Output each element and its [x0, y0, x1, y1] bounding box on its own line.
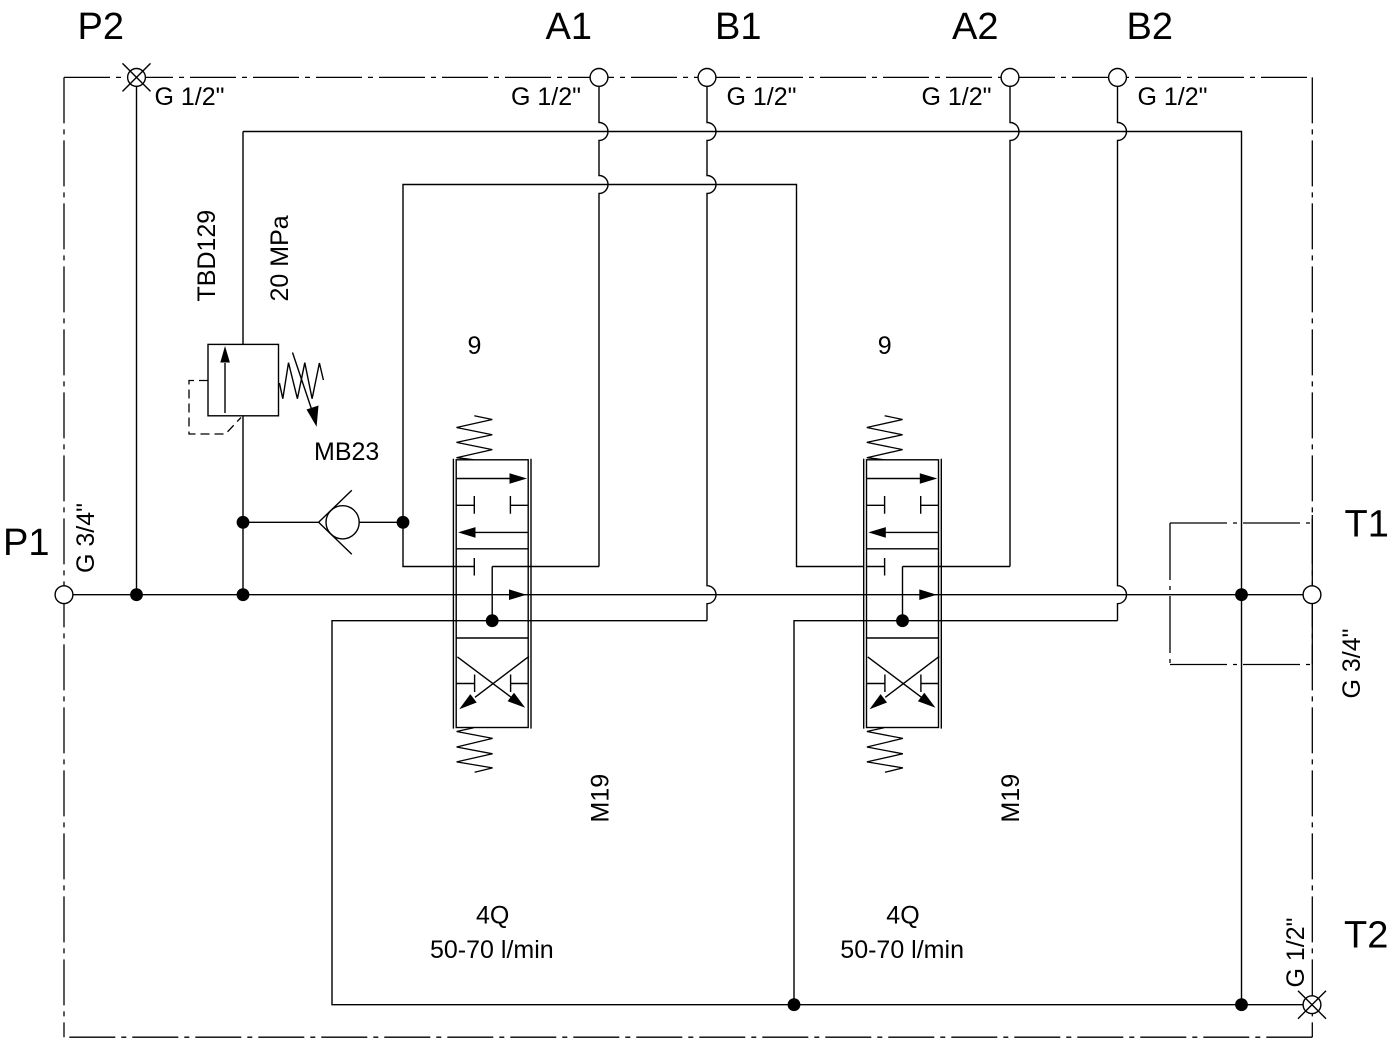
enclosure border left edge (dash-dot): [63, 77, 65, 1037]
wire: A1 branch to valve 1 A-port: [492, 566, 599, 568]
junction node relief-check: [237, 516, 250, 529]
DV1 top position blocked port left: [456, 496, 474, 514]
DV1 bottom spring: [457, 728, 493, 773]
check valve seat: [319, 490, 352, 522]
svg-text:A2: A2: [952, 6, 998, 48]
wire: check valve node down from relief valve to trunk: [242, 416, 244, 595]
svg-text:B2: B2: [1127, 6, 1173, 48]
check valve ball: [326, 506, 359, 539]
wire: right return line from B2 corner across valve 2 down to bottom line: [794, 621, 1118, 1005]
svg-text:T2: T2: [1344, 915, 1388, 957]
wire: A2 riser with jump over tank header: [1010, 86, 1019, 566]
DV2 position divider lower: [867, 637, 939, 639]
svg-text:TBD129: TBD129: [193, 210, 221, 302]
svg-text:9: 9: [468, 332, 482, 360]
wire: B1 riser with jumps over tank header, feed line and trunk: [707, 86, 716, 620]
wire: tank header from relief valve outlet to right drain drop to bottom: [243, 132, 1242, 1005]
wire: P1-T1 pressure trunk: [73, 594, 1303, 596]
DV1 top position blocked port right: [510, 496, 528, 514]
svg-text:T1: T1: [1345, 504, 1389, 546]
DV1 position divider upper: [456, 548, 528, 550]
svg-text:G 1/2": G 1/2": [1282, 917, 1310, 987]
svg-text:G 1/2": G 1/2": [1138, 83, 1208, 111]
svg-text:4Q: 4Q: [886, 902, 919, 930]
junction node check-feed: [397, 516, 410, 529]
junction node relief-trunk: [237, 588, 250, 601]
junction node bottom line right: [1235, 998, 1248, 1011]
svg-text:B1: B1: [715, 6, 761, 48]
DV1 centre position blocked P-port: [456, 558, 474, 576]
DV2 top position blocked port right: [921, 496, 939, 514]
DV1 top position left-flow arrow: [475, 531, 528, 533]
DV2 bottom position cross arrow 1: [868, 657, 923, 698]
DV2 centre position A-to-return tap: [902, 567, 904, 621]
enclosure border right edge (dash-dot): [1311, 77, 1313, 1037]
wire: A1 riser with jumps over tank header and feed line: [599, 86, 608, 566]
svg-text:MB23: MB23: [314, 438, 379, 466]
DV2 centre position blocked P-port: [867, 558, 885, 576]
wire: P2 riser down to P1 trunk: [136, 86, 138, 594]
port B2: [1109, 69, 1127, 87]
svg-text:P2: P2: [78, 6, 124, 48]
DV2 bottom position blocked port left: [867, 675, 885, 693]
svg-text:G 1/2": G 1/2": [727, 83, 797, 111]
DV1 top position right-flow arrow: [456, 478, 511, 480]
port T2 (plugged): [1298, 991, 1326, 1019]
DV2 top spring: [867, 416, 903, 460]
enclosure border top edge (dash-dot): [64, 76, 1312, 78]
relief valve adjustment arrow: [293, 353, 313, 413]
DV1 outer left rail: [452, 459, 454, 729]
DV1 centre position trunk arrow: [509, 589, 527, 600]
port P1: [55, 586, 73, 604]
check valve inlet line: [243, 521, 319, 523]
svg-text:G 1/2": G 1/2": [155, 83, 225, 111]
junction node P2-trunk: [130, 588, 143, 601]
DV2 top position left-flow arrow: [885, 531, 938, 533]
DV2 position divider upper: [867, 548, 939, 550]
DV1 top spring: [457, 416, 493, 460]
relief valve outlet line to tank header: [242, 132, 244, 345]
svg-text:50-70 l/min: 50-70 l/min: [840, 936, 964, 964]
relief valve body square: [208, 344, 279, 415]
relief valve flow arrow: [224, 363, 226, 413]
DV2 bottom position cross arrow 2: [885, 656, 939, 697]
wire: parallel feed line (check valve node up, across, down to valve 2 P-port): [403, 185, 864, 567]
svg-text:A1: A1: [546, 6, 592, 48]
check valve outlet line: [359, 521, 403, 523]
svg-text:9: 9: [878, 332, 892, 360]
DV2 outer left rail: [863, 459, 865, 729]
port P2 (plugged): [123, 63, 151, 91]
svg-text:G 1/2": G 1/2": [511, 83, 581, 111]
DV1 position divider lower: [456, 637, 528, 639]
DV2 centre position trunk arrow: [919, 589, 937, 600]
port T1: [1303, 586, 1321, 604]
wire: B2 riser with jumps over tank header and trunk: [1118, 86, 1127, 620]
svg-text:50-70 l/min: 50-70 l/min: [430, 936, 554, 964]
DV2 top position right-flow arrow: [867, 478, 922, 480]
relief valve pilot line (dashed): [189, 381, 241, 435]
port A1: [590, 69, 608, 87]
svg-text:G 3/4": G 3/4": [72, 503, 100, 573]
svg-text:M19: M19: [587, 774, 615, 823]
DV1 bottom position cross arrow 1: [457, 657, 512, 698]
directional valve DV2: [840, 332, 1025, 964]
DV1 outer right rail: [530, 459, 532, 729]
wire: left return line from B1 corner across valve 1 down and along bottom to T2: [332, 621, 1303, 1005]
DV2 bottom position blocked port right: [921, 675, 939, 693]
directional valve DV1: [430, 332, 615, 964]
T1 subplate box (dash-dot): [1170, 515, 1312, 665]
svg-text:M19: M19: [997, 774, 1025, 823]
port B1: [698, 69, 716, 87]
relief valve TBD129: [189, 132, 323, 435]
DV1 bottom position blocked port left: [456, 675, 474, 693]
DV1 junction dot on return line: [486, 614, 499, 627]
junction node trunk-tank drop: [1235, 588, 1248, 601]
DV2 spool body: [867, 460, 939, 728]
svg-text:20 MPa: 20 MPa: [266, 215, 294, 301]
DV1 bottom position blocked port right: [511, 675, 529, 693]
DV1 centre position A-to-return tap: [491, 567, 493, 621]
relief valve spring: [279, 363, 323, 399]
svg-text:4Q: 4Q: [476, 902, 509, 930]
enclosure border bottom edge (dash-dot): [64, 1036, 1312, 1038]
port A2: [1001, 69, 1019, 87]
DV1 bottom position cross arrow 2: [475, 656, 529, 697]
DV1 spool body: [456, 460, 528, 728]
svg-text:G 1/2": G 1/2": [922, 83, 992, 111]
DV2 top position blocked port left: [867, 496, 885, 514]
svg-text:G 3/4": G 3/4": [1338, 628, 1366, 698]
DV2 junction dot on return line: [896, 614, 909, 627]
check valve MB23: [243, 490, 403, 554]
DV2 bottom spring: [867, 728, 903, 773]
wire: A2 branch to valve 2 A-port: [903, 566, 1011, 568]
junction node bottom line left: [788, 998, 801, 1011]
svg-text:P1: P1: [3, 522, 49, 564]
DV2 outer right rail: [940, 459, 942, 729]
